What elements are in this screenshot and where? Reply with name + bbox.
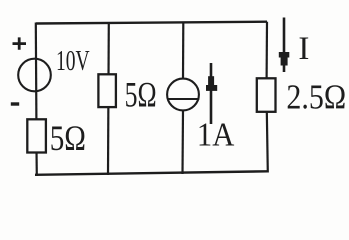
wire bottom — [35, 171, 268, 175]
svg-text:2.5Ω: 2.5Ω — [286, 78, 346, 117]
current source I1 — [167, 79, 199, 111]
label 5ohm left — [50, 119, 86, 159]
label 10V — [56, 45, 90, 77]
minus sign — [11, 102, 19, 105]
resistor R1 — [27, 119, 46, 152]
wire branch3 upper — [182, 22, 185, 80]
arrow I direction — [279, 18, 290, 73]
label I — [298, 31, 309, 67]
resistor R3 — [257, 78, 276, 112]
wire branch4 upper — [266, 22, 269, 79]
plus sign — [13, 37, 27, 49]
wire top — [36, 22, 267, 24]
label 2.5ohm — [286, 78, 346, 117]
svg-text:1A: 1A — [197, 115, 235, 153]
svg-text:5Ω: 5Ω — [125, 74, 157, 114]
svg-text:I: I — [298, 31, 309, 67]
current source bar — [167, 98, 199, 100]
svg-text:5Ω: 5Ω — [50, 119, 86, 159]
wire branch2 — [107, 22, 110, 175]
svg-text:10V: 10V — [56, 45, 90, 77]
wire branch4 lower — [267, 111, 268, 173]
wire branch3 lower — [181, 110, 184, 174]
resistor R2 — [98, 74, 116, 107]
label 5ohm mid — [125, 74, 157, 114]
arrow 1A direction — [206, 63, 217, 124]
voltage source V1 — [18, 59, 51, 92]
label 1A — [197, 115, 235, 153]
wire left lower — [35, 150, 37, 176]
wire left branch — [35, 23, 38, 121]
